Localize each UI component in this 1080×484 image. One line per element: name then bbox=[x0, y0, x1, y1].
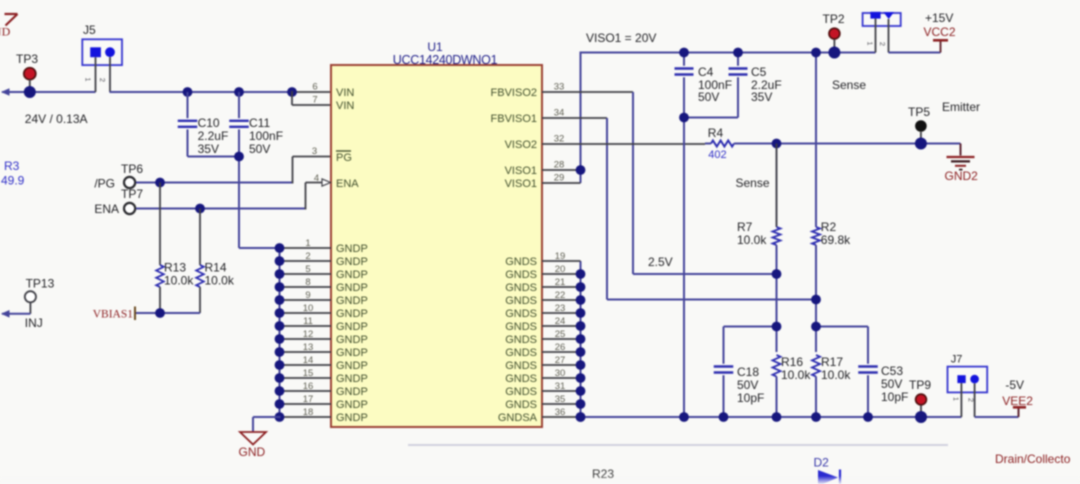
pin name VIN (7) bbox=[336, 100, 354, 112]
wire pin 1 GNDP stub bbox=[280, 247, 332, 249]
svg-text:GND2: GND2 bbox=[945, 169, 979, 183]
capacitor C18 bbox=[714, 327, 765, 418]
svg-text:22: 22 bbox=[555, 290, 566, 301]
pin name GNDP (2) bbox=[336, 256, 368, 268]
wire pin 23 GNDS stub bbox=[542, 312, 581, 314]
resistor R14 bbox=[196, 209, 235, 314]
wire INJ net bbox=[1, 310, 30, 318]
pin 4 ENA input arrow bbox=[322, 179, 331, 186]
svg-text:GNDS: GNDS bbox=[505, 386, 537, 398]
svg-text:GNDP: GNDP bbox=[336, 269, 368, 281]
svg-text:2.5V: 2.5V bbox=[648, 255, 673, 269]
svg-text:10: 10 bbox=[303, 303, 314, 314]
svg-text:TP9: TP9 bbox=[909, 378, 931, 392]
junction GNDS bus pin 25 bbox=[576, 334, 586, 344]
svg-text:6: 6 bbox=[312, 82, 317, 93]
wire C10 bottom to C11 bbox=[188, 156, 240, 158]
pin name GNDS (30) bbox=[505, 373, 537, 385]
pin number 6 bbox=[312, 82, 317, 93]
svg-text:GNDP: GNDP bbox=[336, 360, 368, 372]
svg-text:35V: 35V bbox=[751, 90, 772, 104]
svg-text:GNDS: GNDS bbox=[505, 347, 537, 359]
pin name GNDS (27) bbox=[505, 360, 537, 372]
junction rail R16 bbox=[772, 412, 782, 422]
svg-text:33: 33 bbox=[554, 82, 565, 93]
svg-text:TP7: TP7 bbox=[121, 187, 143, 201]
svg-text:2: 2 bbox=[878, 42, 887, 46]
power port VBIAS1 bbox=[93, 307, 135, 321]
wire VCC2 segment bbox=[889, 41, 941, 53]
svg-text:R3: R3 bbox=[4, 159, 20, 173]
junction GNDP bus pin 5 bbox=[275, 269, 285, 279]
svg-text:5: 5 bbox=[305, 264, 310, 275]
junction R17 top bbox=[811, 322, 821, 332]
svg-text:GNDS: GNDS bbox=[505, 321, 537, 333]
svg-text:50V: 50V bbox=[249, 142, 270, 156]
pin name GNDS (31) bbox=[505, 386, 537, 398]
svg-text:35V: 35V bbox=[198, 142, 219, 156]
label INJ bbox=[25, 316, 43, 330]
pin number 7 bbox=[312, 95, 317, 106]
svg-text:20: 20 bbox=[555, 264, 566, 275]
svg-text:100nF: 100nF bbox=[249, 129, 283, 143]
junction GNDP bus pin 14 bbox=[275, 360, 285, 370]
wire FBVISO2 net bbox=[542, 92, 777, 274]
pin number 25 bbox=[555, 329, 566, 340]
wire pin 25 GNDS stub bbox=[542, 338, 581, 340]
junction C4 bottom bbox=[679, 113, 689, 123]
svg-text:27: 27 bbox=[555, 355, 566, 366]
svg-text:25: 25 bbox=[555, 329, 566, 340]
wire C53 link bbox=[816, 326, 868, 328]
pin name GNDS (26) bbox=[505, 347, 537, 359]
wire pin 26 GNDS stub bbox=[542, 351, 581, 353]
wire GNDP bus to GND bbox=[253, 417, 281, 432]
junction GNDP bus pin 12 bbox=[275, 334, 285, 344]
pin name FBVISO1 (34) bbox=[491, 113, 537, 125]
junction GNDS bus pin 30 bbox=[576, 373, 586, 383]
pin number 30 bbox=[555, 368, 566, 379]
wire pin 2 GNDP stub bbox=[280, 260, 332, 262]
svg-text:1: 1 bbox=[305, 238, 310, 249]
svg-text:49.9: 49.9 bbox=[1, 174, 25, 188]
pin name GNDS (22) bbox=[505, 295, 537, 307]
junction GNDS bus pin 31 bbox=[576, 386, 586, 396]
svg-text:GNDS: GNDS bbox=[505, 334, 537, 346]
pin number 23 bbox=[555, 303, 566, 314]
svg-text:ND: ND bbox=[0, 25, 11, 39]
svg-text:/PG: /PG bbox=[94, 177, 115, 191]
junction C11 top bbox=[234, 87, 244, 97]
svg-text:28: 28 bbox=[554, 160, 565, 171]
wire pin 30 GNDS stub bbox=[542, 377, 581, 379]
svg-text:24V / 0.13A: 24V / 0.13A bbox=[25, 112, 88, 126]
svg-text:10.0k: 10.0k bbox=[781, 368, 811, 382]
capacitor C5 bbox=[684, 53, 782, 118]
test point TP3 bbox=[16, 52, 38, 98]
svg-text:R4: R4 bbox=[708, 126, 724, 140]
power port VCC2 bbox=[924, 11, 956, 40]
junction C10/C11 bottom bbox=[234, 152, 244, 162]
svg-text:TP2: TP2 bbox=[823, 12, 845, 26]
svg-text:VIN: VIN bbox=[336, 87, 354, 99]
wire pin 18 GNDP stub bbox=[280, 416, 332, 418]
pin name VISO1 (29) bbox=[505, 178, 537, 190]
junction GNDS bus pin 21 bbox=[576, 282, 586, 292]
pin name GNDS (23) bbox=[505, 308, 537, 320]
pin number 12 bbox=[303, 329, 314, 340]
pin name GNDP (9) bbox=[336, 295, 368, 307]
pin number 21 bbox=[555, 277, 566, 288]
svg-text:VBIAS1: VBIAS1 bbox=[93, 309, 134, 321]
connector J6 (cropped) bbox=[863, 12, 901, 53]
wire pin 27 GNDS stub bbox=[542, 364, 581, 366]
label Drain/Collector (cropped) bbox=[995, 452, 1071, 466]
resistor R3 labels (cropped) bbox=[1, 159, 25, 188]
svg-text:-5V: -5V bbox=[1005, 378, 1024, 392]
svg-text:Sense: Sense bbox=[736, 176, 770, 190]
svg-text:VISO1 = 20V: VISO1 = 20V bbox=[586, 31, 656, 45]
svg-text:R14: R14 bbox=[205, 261, 227, 275]
junction FBVISO1/R2 bbox=[811, 295, 821, 305]
svg-text:GNDS: GNDS bbox=[505, 373, 537, 385]
svg-text:26: 26 bbox=[555, 342, 566, 353]
junction C10 top bbox=[183, 87, 193, 97]
svg-text:1: 1 bbox=[866, 41, 875, 45]
svg-text:10pF: 10pF bbox=[737, 391, 764, 405]
svg-text:+15V: +15V bbox=[925, 11, 953, 25]
pin number 8 bbox=[305, 277, 310, 288]
junction GNDP bus pin 18 bbox=[275, 412, 285, 422]
junction C4 top bbox=[679, 48, 689, 58]
wire GNDS rail bbox=[581, 416, 962, 418]
junction rail C18 bbox=[719, 412, 729, 422]
ground GND bbox=[239, 432, 267, 459]
svg-text:GNDP: GNDP bbox=[336, 243, 368, 255]
pin name GNDS (35) bbox=[505, 399, 537, 411]
connector J5 bbox=[82, 23, 122, 92]
pin number 2 bbox=[305, 251, 310, 262]
junction GNDP bus pin 8 bbox=[275, 282, 285, 292]
pin number 4 bbox=[314, 173, 319, 184]
pin name GNDS (20) bbox=[505, 269, 537, 281]
svg-text:3: 3 bbox=[312, 146, 317, 157]
wire pin 22 GNDS stub bbox=[542, 299, 581, 301]
svg-text:ENA: ENA bbox=[336, 178, 359, 190]
resistor R7 bbox=[737, 144, 781, 353]
svg-text:1: 1 bbox=[952, 397, 961, 401]
svg-text:GNDP: GNDP bbox=[336, 282, 368, 294]
wire /PG net bbox=[136, 157, 331, 184]
wire GND2 stem bbox=[960, 144, 962, 156]
pin name VISO1 (28) bbox=[505, 165, 537, 177]
svg-text:GNDP: GNDP bbox=[336, 412, 368, 424]
svg-text:2: 2 bbox=[967, 398, 976, 402]
wire pin 10 GNDP stub bbox=[280, 312, 332, 314]
pin name GNDP (12) bbox=[336, 334, 368, 346]
svg-text:VISO2: VISO2 bbox=[505, 139, 537, 151]
pin name VIN (6) bbox=[336, 87, 354, 99]
svg-text:GNDP: GNDP bbox=[336, 295, 368, 307]
svg-text:ENA: ENA bbox=[94, 202, 119, 216]
svg-text:GNDS: GNDS bbox=[505, 282, 537, 294]
capacitor C4 bbox=[675, 53, 733, 418]
wire 24V input right segment bbox=[110, 91, 332, 93]
svg-text:C53: C53 bbox=[881, 364, 903, 378]
svg-text:FBVISO1: FBVISO1 bbox=[491, 113, 537, 125]
svg-text:7: 7 bbox=[312, 95, 317, 106]
pin name GNDP (17) bbox=[336, 399, 368, 411]
wire VBIAS1 net bbox=[136, 312, 200, 314]
svg-text:FBVISO2: FBVISO2 bbox=[491, 87, 537, 99]
wire pin 9 GNDP stub bbox=[280, 299, 332, 301]
svg-text:TP3: TP3 bbox=[16, 52, 38, 66]
svg-text:GNDS: GNDS bbox=[505, 295, 537, 307]
test point TP2 bbox=[823, 12, 845, 59]
pin name GNDP (8) bbox=[336, 282, 368, 294]
svg-text:GNDP: GNDP bbox=[336, 308, 368, 320]
pin name GNDP (5) bbox=[336, 269, 368, 281]
wire pin 35 GNDS stub bbox=[542, 403, 581, 405]
svg-text:VCC2: VCC2 bbox=[924, 25, 956, 39]
pin number 31 bbox=[555, 381, 566, 392]
svg-text:12: 12 bbox=[303, 329, 314, 340]
resistor R17 bbox=[812, 355, 851, 417]
pin number 18 bbox=[303, 407, 314, 418]
junction R4/R7 bbox=[772, 139, 782, 149]
svg-text:GNDP: GNDP bbox=[336, 256, 368, 268]
pin name GNDP (14) bbox=[336, 360, 368, 372]
svg-text:50V: 50V bbox=[881, 377, 902, 391]
ground symbol (cropped top-left) bbox=[0, 14, 18, 39]
svg-text:D2: D2 bbox=[814, 456, 830, 470]
junction GNDS rail bus bbox=[576, 412, 586, 422]
svg-text:GND: GND bbox=[239, 445, 266, 459]
junction VISO1 pins 28/29 bbox=[576, 165, 586, 175]
pin number 1 bbox=[305, 238, 310, 249]
svg-text:34: 34 bbox=[554, 108, 565, 119]
pin name GNDP (16) bbox=[336, 386, 368, 398]
pin number 20 bbox=[555, 264, 566, 275]
junction FBVISO2/R7 bbox=[772, 269, 782, 279]
pin number 33 bbox=[554, 82, 565, 93]
connector J7 bbox=[948, 354, 988, 417]
wire pin 13 GNDP stub bbox=[280, 351, 332, 353]
test point TP7 bbox=[121, 187, 143, 214]
svg-text:30: 30 bbox=[555, 368, 566, 379]
svg-text:24: 24 bbox=[555, 316, 566, 327]
svg-text:J7: J7 bbox=[951, 354, 963, 366]
resistor R13 bbox=[156, 183, 194, 314]
pin name GNDS (19) bbox=[505, 256, 537, 268]
svg-text:GNDS: GNDS bbox=[505, 360, 537, 372]
junction rail R17 bbox=[811, 412, 821, 422]
svg-text:19: 19 bbox=[555, 251, 566, 262]
wire pin 36 GNDS stub bbox=[542, 416, 581, 418]
junction GNDS bus pin 23 bbox=[576, 308, 586, 318]
GNDS bus wire bbox=[580, 261, 582, 417]
svg-text:29: 29 bbox=[554, 173, 565, 184]
label Sense (upper) bbox=[832, 78, 866, 92]
svg-text:10.0k: 10.0k bbox=[164, 274, 194, 288]
wire pin 24 GNDS stub bbox=[542, 325, 581, 327]
pin number 16 bbox=[303, 381, 314, 392]
svg-text:18: 18 bbox=[303, 407, 314, 418]
pin name ENA (4) bbox=[336, 178, 359, 190]
pin name VISO2 (32) bbox=[505, 139, 537, 151]
resistor R4 bbox=[705, 126, 737, 161]
test point TP13 bbox=[25, 277, 55, 314]
svg-text:C10: C10 bbox=[198, 116, 220, 130]
label 2.5V bbox=[648, 255, 673, 269]
svg-text:15: 15 bbox=[303, 368, 314, 379]
svg-text:TP5: TP5 bbox=[908, 105, 930, 119]
pin number 13 bbox=[303, 342, 314, 353]
svg-text:4: 4 bbox=[314, 173, 319, 184]
pin number 11 bbox=[303, 316, 313, 327]
junction GNDP bus pin 11 bbox=[275, 321, 285, 331]
svg-text:GNDSA: GNDSA bbox=[498, 412, 538, 424]
capacitor C53 bbox=[858, 327, 908, 418]
svg-text:Emitter: Emitter bbox=[942, 100, 980, 114]
svg-text:VEE2: VEE2 bbox=[1002, 394, 1033, 408]
capacitor C11 bbox=[229, 92, 283, 248]
pin number 34 bbox=[554, 108, 565, 119]
wire C11 bottom to GNDP bus bbox=[239, 247, 280, 249]
label VISO1 = 20V bbox=[586, 31, 656, 45]
junction R14 top bbox=[195, 204, 205, 214]
ground GND2 bbox=[945, 157, 979, 183]
svg-text:GNDS: GNDS bbox=[505, 399, 537, 411]
svg-text:50V: 50V bbox=[698, 90, 719, 104]
junction rail C4 bbox=[679, 412, 689, 422]
junction R13 bottom bbox=[155, 308, 165, 318]
svg-text:U1: U1 bbox=[427, 40, 443, 54]
junction pin6/pin7 bbox=[287, 87, 297, 97]
svg-text:R16: R16 bbox=[781, 355, 803, 369]
svg-text:PG: PG bbox=[336, 152, 352, 164]
junction R2 top bbox=[811, 48, 821, 58]
junction GNDS bus pin 27 bbox=[576, 360, 586, 370]
test point TP9 bbox=[909, 378, 931, 423]
svg-text:R17: R17 bbox=[821, 355, 843, 369]
pin name GNDP (1) bbox=[336, 243, 368, 255]
test point TP6 bbox=[121, 162, 143, 188]
wire pin 15 GNDP stub bbox=[280, 377, 332, 379]
svg-text:Sense: Sense bbox=[832, 78, 866, 92]
junction R13 top bbox=[155, 178, 165, 188]
svg-text:J5: J5 bbox=[83, 23, 96, 37]
pin name GNDS (24) bbox=[505, 321, 537, 333]
svg-text:69.8k: 69.8k bbox=[821, 233, 851, 247]
junction GNDS bus pin 24 bbox=[576, 321, 586, 331]
pin number 17 bbox=[303, 394, 314, 405]
svg-text:16: 16 bbox=[303, 381, 314, 392]
junction GNDS bus pin 36 bbox=[576, 412, 586, 422]
resistor R16 bbox=[773, 355, 812, 417]
wire pin 21 GNDS stub bbox=[542, 286, 581, 288]
svg-text:10.0k: 10.0k bbox=[737, 233, 767, 247]
wire FBVISO1 net bbox=[542, 118, 816, 300]
op-amp U1 body UCC14240DWNQ1 bbox=[331, 40, 542, 427]
svg-text:2: 2 bbox=[98, 78, 107, 82]
junction GNDP bus pin 16 bbox=[275, 386, 285, 396]
svg-text:36: 36 bbox=[555, 407, 566, 418]
svg-text:10.0k: 10.0k bbox=[821, 368, 851, 382]
pin name GNDP (10) bbox=[336, 308, 368, 320]
svg-text:11: 11 bbox=[303, 316, 313, 327]
wire faded bottom bbox=[408, 444, 948, 446]
svg-text:14: 14 bbox=[303, 355, 314, 366]
svg-text:2.2uF: 2.2uF bbox=[198, 129, 229, 143]
junction GNDP bus pin 15 bbox=[275, 373, 285, 383]
svg-text:GNDS: GNDS bbox=[505, 256, 537, 268]
wire pin 19 GNDS stub bbox=[542, 260, 581, 262]
resistor R23 label (cropped) bbox=[592, 467, 614, 481]
pin number 29 bbox=[554, 173, 565, 184]
svg-text:C18: C18 bbox=[737, 365, 759, 379]
svg-text:VISO1: VISO1 bbox=[505, 178, 537, 190]
wire pin 20 GNDS stub bbox=[542, 273, 581, 275]
pin name GNDSA (36) bbox=[498, 412, 538, 424]
label ENA bbox=[94, 202, 119, 216]
label Sense (lower) bbox=[736, 176, 770, 190]
svg-text:VISO1: VISO1 bbox=[505, 165, 537, 177]
pin number 27 bbox=[555, 355, 566, 366]
pin number 32 bbox=[554, 134, 565, 145]
svg-text:GNDS: GNDS bbox=[505, 308, 537, 320]
svg-text:C4: C4 bbox=[698, 65, 714, 79]
svg-text:10.0k: 10.0k bbox=[205, 274, 235, 288]
pin name PG (3) with overline bbox=[336, 151, 352, 164]
svg-text:R13: R13 bbox=[164, 261, 186, 275]
power port VEE2 bbox=[1002, 378, 1033, 408]
pin name GNDP (18) bbox=[336, 412, 368, 424]
svg-text:TP13: TP13 bbox=[26, 277, 55, 291]
svg-text:2: 2 bbox=[305, 251, 310, 262]
svg-text:C11: C11 bbox=[249, 116, 270, 130]
wire VEE2 segment bbox=[975, 408, 1019, 417]
svg-text:17: 17 bbox=[303, 394, 314, 405]
pin number 5 bbox=[305, 264, 310, 275]
wire 24V input left segment bbox=[1, 88, 96, 96]
junction GNDP bus pin 10 bbox=[275, 308, 285, 318]
wire pin 16 GNDP stub bbox=[280, 390, 332, 392]
svg-text:9: 9 bbox=[305, 290, 310, 301]
label /PG bbox=[94, 177, 115, 191]
svg-text:INJ: INJ bbox=[25, 316, 43, 330]
diode D2 (cropped) bbox=[814, 456, 841, 484]
pin number 9 bbox=[305, 290, 310, 301]
junction GNDS bus pin 20 bbox=[576, 269, 586, 279]
junction GNDP bus pin 13 bbox=[275, 347, 285, 357]
wire Sense net bbox=[736, 143, 961, 145]
svg-text:TP6: TP6 bbox=[121, 162, 143, 176]
svg-text:GNDP: GNDP bbox=[336, 386, 368, 398]
svg-text:31: 31 bbox=[555, 381, 566, 392]
svg-text:Drain/Collecto: Drain/Collecto bbox=[995, 452, 1071, 466]
svg-text:50V: 50V bbox=[737, 378, 758, 392]
pin number 10 bbox=[303, 303, 314, 314]
wire VISO2 net bbox=[542, 143, 705, 145]
svg-text:GNDS: GNDS bbox=[505, 269, 537, 281]
pin number 19 bbox=[555, 251, 566, 262]
junction GNDP bus pin 1 bbox=[275, 243, 285, 253]
wire VISO1 net bbox=[542, 52, 876, 184]
junction rail C53 bbox=[863, 412, 873, 422]
pin number 26 bbox=[555, 342, 566, 353]
wire pin 12 GNDP stub bbox=[280, 338, 332, 340]
